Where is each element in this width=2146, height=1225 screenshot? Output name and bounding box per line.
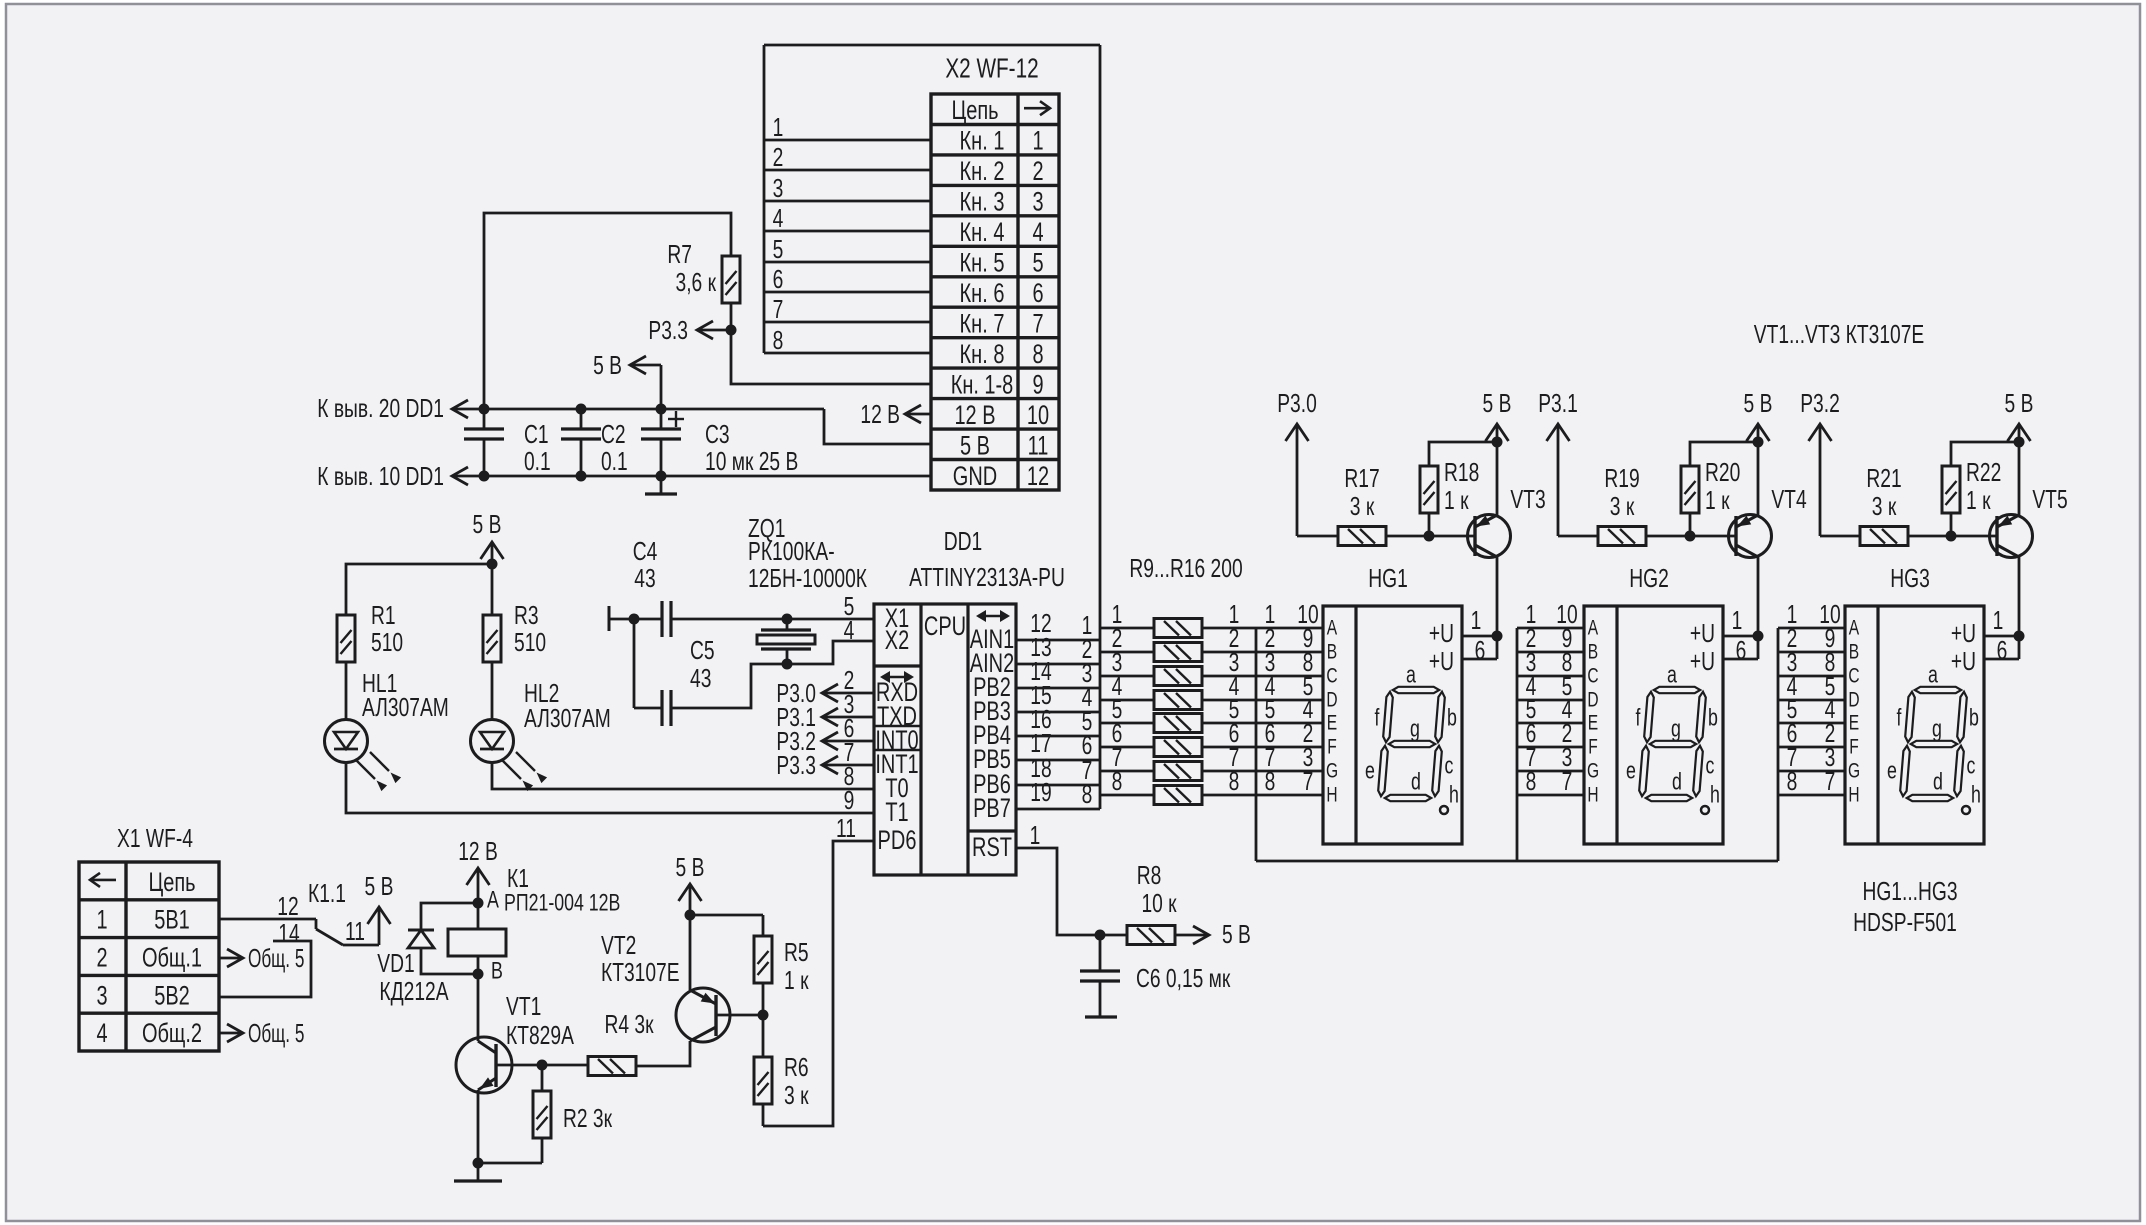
svg-text:510: 510	[371, 627, 403, 657]
labels wire 5 / pin 4 at HG1	[1265, 694, 1314, 724]
svg-text:Кн. 5: Кн. 5	[960, 248, 1005, 278]
resistor R2 3к	[478, 1065, 612, 1163]
bidirectional arrow left column	[880, 671, 914, 683]
labels wire 4 / pin 5 at HG3	[1787, 671, 1836, 701]
wire HG3 +U pin 1	[1984, 635, 2019, 638]
svg-text:С6 0,15 мк: С6 0,15 мк	[1136, 963, 1231, 993]
net arrow 5 В after R8	[1175, 919, 1251, 949]
ground under C3	[660, 476, 663, 494]
svg-text:H: H	[1587, 784, 1598, 807]
power arrow 5 В at VT4	[1744, 388, 1773, 515]
wire 1 into HG2 pin 10	[1517, 627, 1584, 630]
net arrow К выв. 10 DD1	[317, 461, 468, 491]
wire +5V rail (К выв. 20 DD1)	[452, 408, 824, 411]
wire R3 to HL2	[491, 662, 494, 720]
labels wire 6 / pin 2 at HG2	[1526, 718, 1573, 748]
svg-text:C1: C1	[524, 419, 549, 449]
node HG2 +U junction	[1753, 631, 1764, 642]
svg-text:R9...R16 200: R9...R16 200	[1129, 553, 1242, 583]
svg-text:E: E	[1327, 712, 1337, 735]
wire button line 6 to X2 pin Кн.6	[764, 291, 931, 294]
svg-text:b: b	[1969, 705, 1979, 732]
wire segment bus bottom	[1256, 860, 1778, 863]
node VT2 emitter junction	[685, 910, 696, 921]
wire DD1 pin 13 to group line (wire 2)	[1016, 663, 1100, 666]
svg-text:3: 3	[773, 173, 784, 203]
svg-text:РП21-004 12В: РП21-004 12В	[504, 890, 620, 917]
svg-text:КТ3107Е: КТ3107Е	[601, 957, 680, 987]
resistor R17 3 к (base)	[1297, 463, 1475, 546]
svg-text:3 к: 3 к	[1872, 491, 1897, 521]
wire 5 into HG2 pin 4	[1517, 722, 1584, 725]
svg-text:HG3: HG3	[1890, 563, 1930, 593]
labels wire 7 / pin 3 at HG3	[1787, 742, 1836, 772]
ground at VT1	[477, 1163, 480, 1181]
svg-text:1 к: 1 к	[784, 965, 809, 995]
svg-text:11: 11	[345, 916, 365, 946]
wire VT2 base to divider	[716, 1014, 763, 1017]
svg-text:9: 9	[1032, 369, 1043, 399]
svg-text:C2: C2	[601, 419, 626, 449]
power arrow 5 В above R3	[473, 509, 504, 615]
svg-text:+U: +U	[1951, 646, 1976, 676]
svg-text:HDSP-F501: HDSP-F501	[1853, 907, 1957, 937]
svg-text:1 к: 1 к	[1966, 485, 1991, 515]
svg-text:X2 WF-12: X2 WF-12	[945, 53, 1038, 84]
net arrow P3.2 at DD1 pin 6	[776, 713, 874, 756]
svg-text:7: 7	[1303, 766, 1314, 796]
wire RST to R8 node	[1016, 848, 1100, 935]
node C3 top	[656, 404, 667, 415]
svg-text:К1: К1	[507, 863, 529, 893]
wire button line 8 to X2 pin Кн.8	[764, 352, 931, 355]
svg-text:8: 8	[1265, 766, 1276, 796]
svg-text:4: 4	[773, 203, 784, 233]
svg-text:VT1: VT1	[506, 991, 541, 1021]
svg-text:Кн. 3: Кн. 3	[960, 187, 1005, 217]
svg-text:R21: R21	[1866, 463, 1901, 493]
net arrow К выв. 20 DD1	[317, 393, 468, 423]
svg-text:R22: R22	[1966, 457, 2001, 487]
wire HG1 +U pin 1	[1462, 635, 1497, 638]
wire 8 into HG3 pin 7	[1778, 794, 1845, 797]
svg-text:11: 11	[836, 813, 856, 843]
node C2 bottom	[576, 471, 587, 482]
wire 5 В from X2 pin 11 to C-bus	[824, 409, 931, 444]
labels wire 3 / pin 8 at HG1	[1265, 647, 1314, 677]
resistor R16 200 with wire 8	[1100, 766, 1323, 805]
resistor R22 1 к (pull-up)	[1942, 442, 2019, 536]
wire HL2 to DD1 T0	[492, 762, 874, 789]
svg-text:H: H	[1848, 784, 1859, 807]
wire R4 to VT2 collector	[636, 1041, 690, 1066]
svg-text:X2: X2	[885, 625, 909, 655]
svg-text:P3.1: P3.1	[1538, 388, 1578, 418]
ground under C6	[1085, 1015, 1117, 1018]
svg-text:5 В: 5 В	[676, 852, 705, 882]
svg-text:43: 43	[690, 663, 711, 693]
bidirectional arrow right column	[976, 610, 1010, 622]
relay K1 coil	[448, 929, 506, 956]
svg-text:12 В: 12 В	[954, 400, 995, 430]
svg-text:1: 1	[773, 112, 784, 142]
resistor R5 1 к	[754, 915, 809, 1015]
resistor R9 200 with wire 1	[1100, 599, 1323, 638]
wire VT3 collector to display	[1496, 557, 1499, 659]
svg-text:RST: RST	[972, 832, 1012, 862]
svg-text:12 В: 12 В	[458, 836, 498, 866]
svg-text:f: f	[1636, 705, 1641, 732]
svg-text:b: b	[1708, 705, 1718, 732]
svg-text:8: 8	[773, 325, 784, 355]
net arrow 5 В at C3	[593, 350, 661, 409]
wire group line at HG1	[1255, 628, 1258, 861]
node relay terminal А	[473, 898, 484, 909]
wire 1 into HG3 pin 10	[1778, 627, 1845, 630]
svg-text:a: a	[1406, 662, 1416, 689]
svg-text:Общ.2: Общ.2	[142, 1018, 202, 1048]
resistor R21 3 к (base)	[1820, 463, 1997, 546]
svg-text:Кн. 6: Кн. 6	[960, 278, 1005, 308]
node base junction VT5	[1946, 531, 1957, 542]
svg-text:h: h	[1971, 782, 1981, 809]
wire VT1 emitter to ground	[477, 1090, 480, 1163]
net arrow P3.3 (left)	[648, 315, 731, 345]
LED HL1 АЛ307АМ	[325, 668, 449, 791]
labels wire 2 / pin 9 at HG1	[1265, 623, 1314, 653]
svg-text:F: F	[1588, 736, 1598, 759]
svg-text:D: D	[1848, 689, 1859, 712]
svg-text:3 к: 3 к	[1610, 491, 1635, 521]
svg-text:АЛ307АМ: АЛ307АМ	[362, 692, 449, 722]
svg-text:5 В: 5 В	[473, 509, 502, 539]
svg-text:Кн. 8: Кн. 8	[960, 339, 1005, 369]
svg-text:VT1...VT3 КТ3107Е: VT1...VT3 КТ3107Е	[1754, 319, 1925, 349]
node 5 В junction VT5	[2014, 437, 2025, 448]
svg-text:P3.3: P3.3	[648, 315, 688, 345]
svg-text:g: g	[1932, 716, 1942, 743]
wire PD6 down to R6	[763, 841, 874, 1126]
wire DD1 pin 18 to group line (wire 7)	[1016, 784, 1100, 787]
node C1 bottom	[479, 471, 490, 482]
seven-segment digit of HG1	[1365, 662, 1459, 815]
wire 6 into HG3 pin 2	[1778, 746, 1845, 749]
svg-text:Общ. 5: Общ. 5	[248, 1018, 304, 1048]
net arrow Общ. 5 at X1 pin 2	[219, 943, 304, 973]
svg-text:12 В: 12 В	[860, 399, 900, 429]
svg-text:3,6 к: 3,6 к	[676, 267, 717, 297]
wire to R1	[346, 564, 492, 615]
svg-text:РК100КА-: РК100КА-	[748, 536, 835, 566]
resistor R20 1 к (pull-up)	[1681, 442, 1758, 536]
svg-text:b: b	[1447, 705, 1457, 732]
svg-text:R4 3к: R4 3к	[605, 1009, 654, 1039]
labels wire 1 / pin 10 at HG1	[1265, 599, 1319, 629]
svg-text:R8: R8	[1137, 860, 1162, 890]
power arrow 5 В at VT5	[2005, 388, 2034, 515]
svg-text:10 мк 25 В: 10 мк 25 В	[705, 446, 798, 476]
svg-text:h: h	[1449, 782, 1459, 809]
svg-text:10 к: 10 к	[1141, 888, 1177, 918]
wire harness-frame top	[764, 44, 1100, 47]
svg-text:VT3: VT3	[1510, 484, 1545, 514]
svg-text:5 В: 5 В	[593, 350, 622, 380]
svg-text:c: c	[1967, 753, 1976, 780]
display HG3 HDSP-F501 body	[1845, 563, 1984, 844]
svg-text:4: 4	[1032, 217, 1043, 247]
svg-text:+U: +U	[1429, 646, 1454, 676]
svg-text:Цепь: Цепь	[951, 95, 998, 125]
svg-text:VT4: VT4	[1771, 484, 1806, 514]
node HG3 +U junction	[2014, 631, 2025, 642]
svg-text:VT2: VT2	[601, 930, 636, 960]
labels wire 2 / pin 9 at HG2	[1526, 623, 1573, 653]
resistor R1 510	[337, 600, 403, 662]
svg-text:d: d	[1933, 769, 1943, 796]
svg-text:X1 WF-4: X1 WF-4	[117, 823, 193, 853]
wire harness-frame left	[763, 45, 766, 353]
svg-text:G: G	[1848, 760, 1860, 783]
svg-text:19: 19	[1030, 777, 1051, 807]
svg-text:C: C	[1848, 665, 1859, 688]
LED HL2 АЛ307АМ	[471, 678, 611, 791]
resistor R8 10 к	[1100, 860, 1177, 945]
svg-text:G: G	[1326, 760, 1338, 783]
svg-text:7: 7	[1032, 309, 1043, 339]
svg-text:Кн. 1-8: Кн. 1-8	[951, 369, 1014, 399]
capacitor C6 0,15 мк	[1080, 935, 1231, 1017]
transistor VT3 КТ3107Е (PNP)	[1468, 484, 1546, 558]
svg-text:c: c	[1445, 753, 1454, 780]
svg-text:R2 3к: R2 3к	[563, 1103, 612, 1133]
resistor R7 3,6 к	[667, 239, 740, 303]
svg-text:5 В: 5 В	[1222, 919, 1251, 949]
wire DD1 pin 17 to group line (wire 6)	[1016, 759, 1100, 762]
capacitor C3 10 мк 25 В (polarized)	[641, 409, 798, 476]
resistor R6 3 к	[754, 1015, 809, 1126]
svg-text:4: 4	[844, 615, 855, 645]
wire button line 2 to X2 pin Кн.2	[764, 169, 931, 172]
svg-text:АЛ307АМ: АЛ307АМ	[524, 703, 611, 733]
svg-text:12: 12	[277, 891, 298, 921]
wire button line 3 to X2 pin Кн.3	[764, 200, 931, 203]
node C2 top	[576, 404, 587, 415]
node C1 top	[479, 404, 490, 415]
node R1/R3 5V junction	[487, 559, 498, 570]
svg-text:1: 1	[1732, 605, 1743, 635]
svg-text:B: B	[1849, 641, 1859, 664]
wire 3 into HG2 pin 8	[1517, 675, 1584, 678]
net arrow P3.2	[1800, 388, 1840, 536]
wire group line at HG3	[1777, 628, 1780, 861]
svg-text:1: 1	[1471, 605, 1482, 635]
resistor R12 200 with wire 4	[1100, 671, 1323, 710]
svg-text:d: d	[1672, 769, 1682, 796]
svg-text:E: E	[1849, 712, 1859, 735]
wire DD1 pin 16 to group line (wire 5)	[1016, 735, 1100, 738]
svg-text:5В1: 5В1	[154, 905, 190, 935]
svg-text:d: d	[1411, 769, 1421, 796]
wire HG2 +U pin 6	[1723, 658, 1758, 661]
svg-text:Кн. 4: Кн. 4	[960, 217, 1005, 247]
svg-text:8: 8	[1082, 779, 1093, 809]
svg-text:+U: +U	[1690, 618, 1715, 648]
svg-text:Общ.1: Общ.1	[142, 943, 202, 973]
svg-text:HG1...HG3: HG1...HG3	[1862, 876, 1957, 906]
wire 7 into HG2 pin 3	[1517, 770, 1584, 773]
svg-text:6: 6	[1997, 635, 2008, 665]
svg-text:5 В: 5 В	[2005, 388, 2034, 418]
svg-text:10: 10	[1027, 400, 1049, 430]
wire HG3 +U pin 6	[1984, 658, 2019, 661]
seven-segment digit of HG2	[1626, 662, 1720, 815]
svg-text:H: H	[1326, 784, 1337, 807]
labels wire 5 / pin 4 at HG2	[1526, 694, 1573, 724]
svg-text:КТ829А: КТ829А	[506, 1020, 574, 1050]
svg-text:E: E	[1588, 712, 1598, 735]
resistor R19 3 к (base)	[1558, 463, 1736, 546]
svg-text:P3.0: P3.0	[1277, 388, 1317, 418]
wire X1 pin 3 (5В2) to contact 14	[219, 941, 311, 997]
svg-text:D: D	[1587, 689, 1598, 712]
svg-text:R18: R18	[1444, 457, 1479, 487]
resistor R18 1 к (pull-up)	[1420, 442, 1497, 536]
wire DD1 pin 12 to group line (wire 1)	[1016, 639, 1100, 642]
svg-text:К1.1: К1.1	[308, 878, 346, 908]
svg-text:Кн. 2: Кн. 2	[960, 156, 1005, 186]
transistor VT5 КТ3107Е (PNP)	[1990, 484, 2068, 558]
svg-text:8: 8	[1112, 766, 1123, 796]
wire coil bottom to VT1 collector	[477, 956, 480, 1041]
power arrow 5 В at switch	[365, 871, 394, 945]
svg-text:8: 8	[1032, 339, 1043, 369]
svg-text:К выв. 20 DD1: К выв. 20 DD1	[317, 393, 444, 423]
svg-text:HG2: HG2	[1629, 563, 1669, 593]
node C4/C5 left junction	[629, 614, 640, 625]
wire 2 into HG3 pin 9	[1778, 651, 1845, 654]
svg-text:A: A	[1327, 617, 1337, 640]
wire crystal bottom to C5	[671, 664, 787, 708]
pin numbers 1 and 6 of HG1	[1471, 605, 1486, 665]
svg-text:9: 9	[844, 785, 855, 815]
svg-text:DD1: DD1	[944, 526, 983, 556]
svg-text:7: 7	[1825, 766, 1836, 796]
wire button line 1 to X2 pin Кн.1	[764, 139, 931, 142]
wire HL1 to DD1 T1	[346, 762, 874, 813]
svg-text:11: 11	[1028, 430, 1049, 460]
wire button line 7 to X2 pin Кн.7	[764, 321, 931, 324]
svg-text:5 В: 5 В	[365, 871, 394, 901]
wire GND rail (К выв. 10 DD1) to X2 pin 12	[452, 475, 931, 478]
resistor R11 200 with wire 3	[1100, 647, 1323, 686]
svg-text:CPU: CPU	[924, 611, 966, 641]
svg-text:VD1: VD1	[377, 948, 414, 978]
wire DD1 pin 15 to group line (wire 4)	[1016, 711, 1100, 714]
labels wire 7 / pin 3 at HG1	[1265, 742, 1314, 772]
capacitor C5 43	[634, 619, 715, 726]
labels wire 6 / pin 2 at HG1	[1265, 718, 1314, 748]
wire group line at HG2	[1516, 628, 1519, 861]
wire 6 into HG2 pin 2	[1517, 746, 1584, 749]
capacitor C4 43	[633, 536, 671, 637]
svg-text:5: 5	[1032, 248, 1043, 278]
wire VT5 collector to display	[2018, 557, 2021, 659]
svg-text:P3.3: P3.3	[776, 750, 816, 780]
node RST/R8/C6 junction	[1095, 930, 1106, 941]
svg-text:5 В: 5 В	[960, 430, 990, 460]
node crystal bottom junction	[782, 659, 793, 670]
wire HG2 +U pin 1	[1723, 635, 1758, 638]
svg-text:e: e	[1887, 758, 1897, 785]
svg-text:e: e	[1626, 758, 1636, 785]
wire X1 line right of C4	[671, 618, 874, 621]
svg-text:В: В	[491, 958, 503, 985]
node base/R2 junction	[537, 1060, 548, 1071]
power arrow 5 В at VT3	[1483, 388, 1512, 515]
net arrow P3.1	[1538, 388, 1578, 536]
net arrow P3.0 at DD1 pin 2	[776, 665, 874, 708]
svg-text:T1: T1	[885, 797, 908, 827]
svg-text:HG1: HG1	[1368, 563, 1408, 593]
wire R7 top to C-bus	[484, 213, 731, 409]
net arrow 12 В from X2 pin 10	[860, 399, 931, 429]
labels wire 2 / pin 9 at HG3	[1787, 623, 1836, 653]
connector X2 table	[931, 94, 1059, 491]
svg-text:R1: R1	[371, 600, 396, 630]
wire group-line right vertical	[1099, 45, 1102, 809]
power arrow 5 В at VT2	[676, 852, 705, 990]
svg-text:3 к: 3 к	[784, 1080, 809, 1110]
svg-text:К выв. 10 DD1: К выв. 10 DD1	[317, 461, 444, 491]
net arrow Общ. 5 at X1 pin 4	[219, 1018, 304, 1048]
svg-text:a: a	[1928, 662, 1938, 689]
crystal ZQ1 РК100КА-12БН-10000К	[748, 513, 867, 664]
wire 5 into HG3 pin 4	[1778, 722, 1845, 725]
svg-text:7: 7	[1562, 766, 1573, 796]
node 5 В junction VT4	[1753, 437, 1764, 448]
svg-text:g: g	[1410, 716, 1420, 743]
labels wire 3 / pin 8 at HG3	[1787, 647, 1836, 677]
net arrow P3.1 at DD1 pin 3	[776, 689, 874, 732]
node 5 В junction VT3	[1492, 437, 1503, 448]
svg-text:510: 510	[514, 627, 546, 657]
seven-segment digit of HG3	[1887, 662, 1981, 815]
svg-text:8: 8	[1787, 766, 1798, 796]
wire 2 into HG2 pin 9	[1517, 651, 1584, 654]
wire button line 4 to X2 pin Кн.4	[764, 230, 931, 233]
IC DD1 ATTINY2313A-PU body	[874, 526, 1065, 875]
svg-text:f: f	[1897, 705, 1902, 732]
svg-text:+U: +U	[1429, 618, 1454, 648]
svg-text:А: А	[487, 887, 499, 914]
svg-text:Кн. 7: Кн. 7	[960, 309, 1005, 339]
transistor VT4 КТ3107Е (PNP)	[1729, 484, 1807, 558]
svg-text:B: B	[1588, 641, 1598, 664]
svg-text:R6: R6	[784, 1052, 809, 1082]
wire R1 to HL1	[345, 662, 348, 720]
pin numbers 1 and 6 of HG3	[1993, 605, 2008, 665]
svg-text:1: 1	[1032, 126, 1043, 156]
wire 3 into HG3 pin 8	[1778, 675, 1845, 678]
svg-text:C3: C3	[705, 419, 730, 449]
labels wire 8 / pin 7 at HG2	[1526, 766, 1573, 796]
svg-text:+U: +U	[1951, 618, 1976, 648]
connector X1 table	[79, 862, 219, 1051]
wire 5V to R5	[690, 914, 763, 917]
node base junction VT4	[1685, 531, 1696, 542]
svg-text:12БН-10000К: 12БН-10000К	[748, 563, 867, 593]
resistor R10 200 with wire 2	[1100, 623, 1323, 662]
